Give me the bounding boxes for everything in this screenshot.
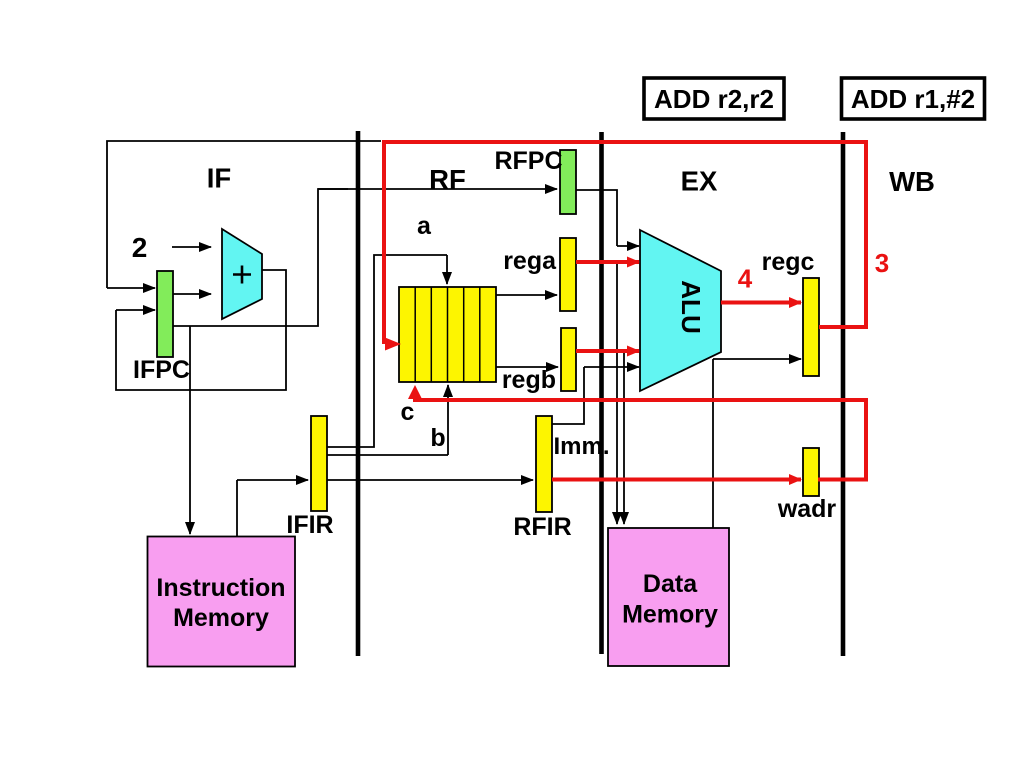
- svg-text:3: 3: [875, 248, 889, 278]
- svg-text:rega: rega: [503, 247, 557, 275]
- svg-text:regb: regb: [502, 366, 556, 394]
- svg-text:ADD r2,r2: ADD r2,r2: [654, 84, 774, 114]
- svg-text:ALU: ALU: [676, 280, 706, 333]
- svg-text:a: a: [417, 212, 432, 240]
- svg-text:2: 2: [132, 232, 148, 263]
- svg-text:Memory: Memory: [622, 601, 718, 629]
- svg-text:IFPC: IFPC: [133, 356, 190, 384]
- svg-text:b: b: [430, 424, 445, 452]
- svg-text:RFIR: RFIR: [513, 513, 571, 541]
- svg-text:RF: RF: [429, 164, 466, 195]
- svg-text:IFIR: IFIR: [286, 511, 333, 539]
- svg-text:WB: WB: [889, 166, 935, 197]
- svg-text:Data: Data: [643, 570, 698, 598]
- svg-text:c: c: [401, 398, 415, 426]
- svg-text:wadr: wadr: [777, 495, 837, 523]
- svg-text:regc: regc: [762, 248, 815, 276]
- svg-text:EX: EX: [681, 166, 718, 197]
- svg-text:Instruction: Instruction: [156, 574, 285, 602]
- svg-text:Memory: Memory: [173, 604, 269, 632]
- svg-text:4: 4: [738, 264, 753, 294]
- svg-text:Imm.: Imm.: [554, 433, 610, 460]
- svg-text:ADD r1,#2: ADD r1,#2: [851, 84, 975, 114]
- svg-text:IF: IF: [207, 163, 231, 194]
- svg-text:RFPC: RFPC: [494, 147, 562, 175]
